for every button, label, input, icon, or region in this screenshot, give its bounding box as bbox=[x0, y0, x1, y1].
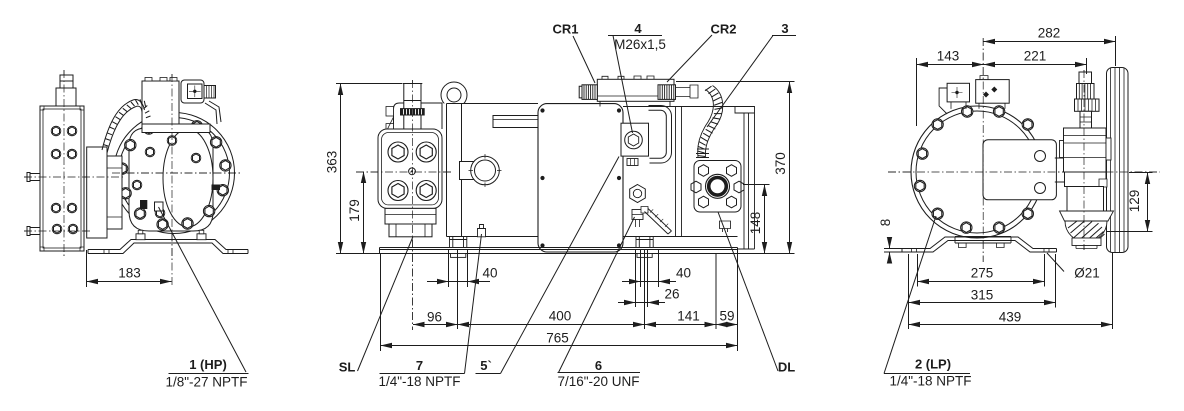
body section edge lines bbox=[676, 107, 682, 237]
centerlines overlay bbox=[24, 70, 240, 286]
dim 439 bbox=[909, 324, 1113, 326]
neck left tabs bbox=[386, 107, 394, 117]
pipe lower bbox=[404, 115, 421, 129]
svg-text:315: 315 bbox=[971, 288, 994, 303]
dim 129 bbox=[1147, 173, 1149, 232]
leader DL bbox=[718, 212, 778, 371]
dim 40 right bbox=[622, 281, 641, 283]
left rail bolt bbox=[450, 237, 467, 248]
body top rib bbox=[493, 116, 546, 128]
dim 400 bbox=[458, 324, 645, 326]
svg-text:148: 148 bbox=[748, 212, 763, 235]
pump blocks below flange bbox=[385, 208, 436, 224]
top fitting on flange bbox=[56, 88, 76, 106]
stud upper bbox=[30, 174, 40, 181]
box top tabs bbox=[145, 78, 152, 82]
dim 26 bbox=[618, 302, 636, 304]
svg-text:40: 40 bbox=[482, 266, 497, 281]
label 7 underline + leader bbox=[380, 373, 465, 375]
M26 sight glass square bbox=[621, 123, 649, 156]
flywheel disc bbox=[1107, 68, 1129, 253]
CR1 stub bbox=[582, 85, 597, 100]
suction flange bbox=[378, 129, 442, 208]
dim 275 bbox=[918, 281, 1045, 283]
braided hose bbox=[698, 90, 714, 158]
plug 6 bbox=[632, 210, 643, 220]
stator cover big rectangle bbox=[538, 104, 623, 252]
right rail bolt bbox=[636, 237, 653, 248]
side plug bbox=[212, 185, 221, 191]
svg-text:DL: DL bbox=[778, 360, 795, 375]
ext rail right bbox=[738, 253, 795, 255]
svg-text:400: 400 bbox=[549, 309, 572, 324]
valve mid band bbox=[1065, 172, 1107, 187]
svg-text:179: 179 bbox=[347, 199, 362, 222]
dim 143 bbox=[917, 64, 984, 66]
terminal box lower band bbox=[142, 124, 210, 133]
leader CR2 bbox=[667, 35, 712, 82]
ext rail left bbox=[336, 253, 380, 255]
leader O21 bbox=[1047, 253, 1064, 272]
valve main block bbox=[1064, 128, 1107, 172]
suction centerline horizontal bbox=[356, 171, 452, 173]
svg-text:59: 59 bbox=[719, 309, 734, 324]
valve skirt bbox=[1060, 211, 1114, 221]
svg-text:221: 221 bbox=[1024, 49, 1047, 64]
dim 148 bbox=[764, 185, 766, 254]
hose top fitting bbox=[676, 85, 698, 98]
inner head bolts bbox=[167, 136, 177, 146]
suction pipe bbox=[404, 84, 421, 109]
HP plug bbox=[140, 200, 147, 209]
flange bolts bbox=[388, 142, 408, 162]
bolt under DL bbox=[720, 221, 731, 232]
svg-text:4: 4 bbox=[634, 21, 642, 36]
svg-text:SL: SL bbox=[339, 360, 356, 375]
box pedestals bbox=[951, 102, 1005, 109]
box bracket bbox=[939, 88, 947, 114]
ext 148 bbox=[743, 184, 770, 186]
conduit bracket bbox=[205, 103, 217, 124]
mounting rail bbox=[380, 248, 738, 254]
CR pipe loop bbox=[649, 106, 672, 164]
head-body connectors bbox=[600, 101, 744, 106]
leader CR1 bbox=[573, 36, 595, 83]
svg-text:2 (LP): 2 (LP) bbox=[915, 357, 951, 372]
label 4 underline + leader bbox=[608, 35, 662, 37]
adapter flange bbox=[87, 147, 107, 238]
ext 363 top bbox=[336, 83, 402, 85]
svg-text:141: 141 bbox=[677, 309, 700, 324]
horizontal centerline bbox=[888, 171, 1160, 173]
svg-text:275: 275 bbox=[971, 266, 994, 281]
svg-text:CR2: CR2 bbox=[710, 22, 736, 37]
right end bell bbox=[735, 107, 755, 250]
dim 315 bbox=[909, 302, 1056, 304]
foot pad slots bbox=[104, 250, 233, 254]
suction centerline vertical bbox=[412, 80, 414, 330]
leader 1 HP bbox=[159, 207, 247, 372]
neck chamfer bbox=[388, 117, 394, 129]
ext 221 right bbox=[1086, 58, 1088, 74]
foot slot right (O21) bbox=[1044, 249, 1049, 253]
svg-text:CR1: CR1 bbox=[552, 22, 578, 37]
flange center port bbox=[409, 168, 416, 175]
ext verticals right bottom bbox=[909, 252, 1113, 329]
svg-text:1/8"-27 NPTF: 1/8"-27 NPTF bbox=[165, 375, 247, 390]
dim 370 bbox=[789, 82, 791, 254]
label 5 underline + leader bbox=[476, 373, 501, 375]
main circle housing bbox=[114, 113, 235, 234]
cover screws bbox=[540, 108, 544, 112]
dim 183 bbox=[87, 281, 172, 283]
dim 8 arrows bbox=[889, 237, 891, 249]
dim 765 bbox=[381, 345, 738, 347]
svg-text:96: 96 bbox=[427, 310, 442, 325]
ext 129 bbox=[1107, 173, 1153, 232]
centerline vertical left-rect bbox=[63, 70, 65, 258]
dim 59 bbox=[716, 324, 738, 326]
svg-text:Ø21: Ø21 bbox=[1074, 266, 1100, 281]
valve bottom cap bbox=[1072, 238, 1101, 246]
svg-text:1 (HP): 1 (HP) bbox=[189, 357, 227, 372]
terminal box body bbox=[142, 81, 179, 124]
ring bolts bbox=[932, 119, 943, 130]
ext 282 right bbox=[1115, 36, 1117, 66]
label 6 underline + leader bbox=[558, 372, 641, 374]
dim 183 ext bbox=[86, 250, 88, 287]
svg-text:1/4"-18 NPTF: 1/4"-18 NPTF bbox=[378, 374, 460, 389]
valve neck bbox=[1080, 111, 1092, 128]
svg-text:26: 26 bbox=[664, 287, 679, 302]
sight glass slot bbox=[460, 162, 474, 180]
inner rim circle bbox=[119, 118, 230, 229]
dim 141 bbox=[645, 324, 717, 326]
right view: ext 143 left bbox=[916, 58, 918, 126]
main housing circle bbox=[911, 106, 1043, 238]
centerline vertical main circle bbox=[171, 74, 173, 262]
ext verticals bottom chain bbox=[381, 250, 738, 351]
CR cylinder head bbox=[597, 79, 674, 101]
valve gland collar bbox=[1075, 99, 1100, 111]
terminal box end right bbox=[976, 80, 1010, 104]
bolt 7 on body bottom bbox=[478, 225, 486, 237]
valve stem threaded bbox=[1077, 84, 1095, 100]
dim 363 bbox=[340, 84, 342, 254]
ext 8 bbox=[884, 249, 903, 253]
centerlines overlay bbox=[888, 38, 1160, 262]
valve centerline bbox=[1083, 70, 1085, 250]
left flange tall rect bbox=[40, 106, 84, 251]
terminal box end left bbox=[947, 83, 969, 102]
DL center ring bbox=[706, 174, 730, 198]
cable gland connector bbox=[204, 86, 216, 99]
ext 370 top bbox=[676, 81, 795, 83]
label 2 LP underline + leader bbox=[884, 373, 970, 375]
DL discharge flange bbox=[694, 161, 741, 213]
motor barrel ellipse bbox=[163, 129, 213, 227]
centerline horizontal stud lower bbox=[24, 230, 92, 232]
svg-text:439: 439 bbox=[999, 310, 1022, 325]
svg-text:7: 7 bbox=[416, 358, 423, 373]
valve lower block bbox=[1067, 187, 1104, 212]
shaft branch bbox=[1055, 158, 1068, 182]
flange bolts below bbox=[959, 243, 1005, 248]
valve lower hatched dome bbox=[1065, 221, 1107, 242]
leader SL bbox=[358, 237, 414, 372]
circle horizontal centerline bbox=[112, 172, 240, 174]
svg-text:3: 3 bbox=[781, 21, 788, 36]
suction neck block bbox=[394, 103, 443, 129]
svg-text:40: 40 bbox=[676, 266, 691, 281]
foot bracket bbox=[88, 240, 248, 250]
valve right lug bbox=[1106, 138, 1111, 160]
dim 282 bbox=[984, 41, 1116, 43]
cable hatched band bbox=[102, 100, 133, 150]
svg-text:1/4"-18 NPTF: 1/4"-18 NPTF bbox=[889, 374, 971, 389]
valve stem cap bbox=[1079, 72, 1092, 84]
svg-text:765: 765 bbox=[546, 331, 569, 346]
hose end fitting bbox=[696, 149, 709, 158]
svg-text:M26x1,5: M26x1,5 bbox=[614, 37, 666, 52]
svg-text:6: 6 bbox=[595, 358, 602, 373]
svg-text:143: 143 bbox=[937, 49, 960, 64]
svg-text:8: 8 bbox=[878, 219, 893, 227]
centerlines overlay bbox=[356, 80, 452, 330]
relay box bbox=[181, 80, 204, 103]
M26 oil fill plug bbox=[625, 131, 643, 149]
svg-text:370: 370 bbox=[773, 152, 788, 175]
ext lines 26 bbox=[636, 250, 648, 307]
label 3 underline + leader bbox=[772, 35, 796, 37]
crankcase silhouette bbox=[129, 128, 213, 231]
foot mount bolts bbox=[136, 234, 145, 240]
foot bracket right view bbox=[902, 237, 1057, 249]
angled lever bbox=[641, 207, 648, 214]
housing bottom flange bbox=[955, 237, 1011, 244]
flange bolts bbox=[51, 126, 61, 136]
svg-text:7/16"-20 UNF: 7/16"-20 UNF bbox=[557, 374, 639, 389]
knurled nut bbox=[401, 109, 425, 115]
dim 40 left bbox=[427, 281, 449, 283]
valve left lug bbox=[1060, 141, 1064, 158]
stud lower bbox=[30, 228, 40, 235]
pipe connector nut bbox=[627, 159, 638, 166]
body main outline bbox=[447, 104, 738, 237]
svg-text:183: 183 bbox=[118, 266, 141, 281]
sight glass bbox=[471, 156, 500, 185]
CR2 stub bbox=[658, 85, 676, 100]
svg-text:5`: 5` bbox=[480, 358, 492, 373]
lifting eye ring bbox=[441, 82, 467, 108]
valve hex right bbox=[1099, 179, 1107, 187]
dim 179 bbox=[363, 172, 365, 254]
foot slot left bbox=[912, 249, 917, 253]
svg-text:282: 282 bbox=[1038, 26, 1061, 41]
ext lines right foot 40 bbox=[641, 250, 659, 287]
flange corner marks bbox=[40, 106, 44, 110]
ext lines left foot 40 bbox=[449, 250, 468, 287]
dim 96 bbox=[413, 324, 458, 326]
center plate bbox=[983, 140, 1056, 200]
svg-text:363: 363 bbox=[325, 151, 340, 174]
vertical centerline bbox=[982, 38, 984, 262]
dim 221 bbox=[984, 64, 1087, 66]
oil drain hex bolt bbox=[630, 185, 646, 203]
svg-text:129: 129 bbox=[1127, 190, 1142, 213]
DL corner bolts bbox=[699, 165, 709, 177]
head top tabs bbox=[602, 76, 654, 79]
centerline horizontal stud upper bbox=[24, 176, 125, 178]
ring bolts bbox=[167, 115, 178, 126]
